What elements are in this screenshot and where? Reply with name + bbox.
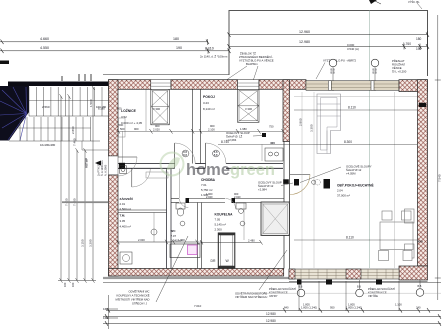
svg-text:2.020: 2.020 bbox=[153, 127, 160, 131]
corridor south wall bbox=[171, 199, 284, 203]
black dash left margin bbox=[0, 61, 9, 65]
leader sloup1 bbox=[253, 135, 263, 138]
svg-text:900: 900 bbox=[155, 124, 160, 128]
svg-text:1.805 (1.240): 1.805 (1.240) bbox=[346, 306, 362, 310]
svg-text:2,500 m²: 2,500 m² bbox=[120, 207, 131, 211]
door bedroom 1 bbox=[174, 143, 176, 168]
grid guideline vertical bbox=[369, 11, 371, 269]
svg-text:3.52: 3.52 bbox=[121, 115, 127, 119]
door wc arc bbox=[180, 199, 189, 208]
svg-text:3 300: 3 300 bbox=[245, 107, 252, 111]
svg-text:B.B: B.B bbox=[373, 71, 377, 75]
leader vysk bbox=[417, 3, 422, 9]
svg-text:2.860: 2.860 bbox=[71, 126, 75, 134]
svg-text:WC: WC bbox=[171, 229, 177, 233]
svg-text:240: 240 bbox=[416, 306, 421, 310]
svg-text:homegreen: homegreen bbox=[186, 161, 275, 179]
svg-text:POKOJ: POKOJ bbox=[203, 95, 215, 99]
living room door bbox=[290, 174, 310, 176]
dimension line top-left A bbox=[0, 41, 208, 43]
bottom glazing band tan right section bbox=[289, 269, 399, 279]
svg-text:1.980: 1.980 bbox=[240, 127, 247, 131]
svg-text:180: 180 bbox=[173, 37, 179, 41]
svg-text:BxAPMm: BxAPMm bbox=[246, 62, 258, 66]
svg-text:4.550: 4.550 bbox=[40, 46, 49, 50]
svg-text:2x 1140, d. Ž *100mm: 2x 1140, d. Ž *100mm bbox=[200, 54, 228, 59]
bathtub bbox=[170, 244, 200, 258]
section bowtie 3 bbox=[324, 179, 331, 189]
chair 3 bbox=[379, 251, 389, 261]
left wall hatched lower bbox=[109, 175, 119, 276]
marker circle wallA 2 bbox=[213, 150, 220, 157]
svg-text:T.M.: T.M. bbox=[120, 214, 126, 218]
threshold circle 2 dashed bbox=[315, 179, 321, 185]
svg-text:500: 500 bbox=[120, 127, 125, 131]
stair walk lines bbox=[29, 100, 109, 102]
svg-text:450: 450 bbox=[418, 240, 423, 244]
dim end ticks top bbox=[1, 32, 430, 53]
shower square bbox=[261, 202, 290, 236]
svg-text:VÝŠK. BL: VÝŠK. BL bbox=[408, 0, 420, 4]
door bedroom 2 bbox=[205, 143, 207, 168]
grid bubble bottom 1 bbox=[300, 280, 302, 289]
bottom wall hatched left section bbox=[109, 269, 284, 277]
wc marker circles bbox=[180, 221, 185, 226]
left wall entrance gap bbox=[109, 156, 119, 175]
door bath arc bbox=[226, 199, 236, 209]
svg-text:7.05: 7.05 bbox=[215, 218, 221, 222]
living interior guide lines bbox=[302, 92, 395, 268]
svg-text:2.000: 2.000 bbox=[138, 238, 145, 242]
dimension line top-left B bbox=[0, 50, 229, 52]
svg-text:+2,084: +2,084 bbox=[258, 188, 267, 192]
tm boiler circle bbox=[151, 229, 157, 235]
leader to odvetrani wc bbox=[156, 236, 188, 302]
svg-text:VSTUP: VSTUP bbox=[85, 158, 89, 168]
wardrobe loznice bbox=[151, 89, 170, 125]
right dim line vertical bbox=[437, 15, 439, 300]
svg-text:950: 950 bbox=[330, 306, 335, 310]
svg-text:ZÁDVEŘÍ: ZÁDVEŘÍ bbox=[120, 196, 133, 201]
grid bubble bottom 2 bbox=[359, 280, 361, 289]
bottom band frame ticks bbox=[301, 270, 393, 279]
stair landing outline bbox=[82, 141, 112, 150]
svg-text:LOŽNICE: LOŽNICE bbox=[121, 108, 137, 113]
svg-text:190: 190 bbox=[176, 46, 182, 50]
svg-text:160: 160 bbox=[71, 282, 75, 287]
entrance door arc bbox=[118, 156, 137, 158]
dim ticks bottom bbox=[105, 308, 441, 326]
divider wall hatched (bedrooms / living) bbox=[283, 80, 290, 142]
grid bubble B1 top bbox=[329, 59, 337, 67]
svg-text:7.480: 7.480 bbox=[73, 138, 77, 146]
bath sink bbox=[236, 203, 246, 209]
north arrow bbox=[369, 0, 377, 4]
stair winder black polygon bbox=[0, 86, 29, 141]
roof overhang outline right section bbox=[229, 11, 428, 77]
bottom band pier 2 hatched bbox=[346, 269, 361, 279]
svg-text:KONSTRUKCE: KONSTRUKCE bbox=[269, 291, 288, 295]
svg-text:3.290: 3.290 bbox=[89, 239, 93, 247]
leader zb1 bbox=[222, 66, 247, 83]
wardrobe pokoj bbox=[238, 89, 260, 122]
right wall black pier bbox=[419, 103, 427, 107]
svg-text:7.07: 7.07 bbox=[171, 234, 177, 238]
section bowtie 2 bbox=[294, 179, 299, 186]
svg-text:KONSTRUKCE: KONSTRUKCE bbox=[368, 291, 387, 295]
fixture pokoj south rect with circles bbox=[265, 148, 283, 161]
divider wall thin lower bbox=[283, 142, 285, 269]
top wall hatched segment 3 bbox=[259, 80, 306, 90]
bottom band black squares bbox=[297, 280, 302, 285]
svg-text:4,400 m²: 4,400 m² bbox=[120, 225, 131, 229]
bottom band pier 1 hatched bbox=[289, 269, 295, 279]
svg-text:8.110: 8.110 bbox=[346, 236, 354, 240]
radiator loznice left wall bbox=[119, 118, 126, 137]
svg-text:750: 750 bbox=[269, 125, 274, 129]
grid bubble bottom 3 bbox=[419, 280, 421, 288]
bottom dim line D2 bbox=[103, 316, 441, 318]
svg-text:3.05: 3.05 bbox=[120, 219, 126, 223]
svg-text:840: 840 bbox=[284, 306, 289, 310]
svg-text:12.980: 12.980 bbox=[266, 319, 276, 323]
svg-text:8,140 m²: 8,140 m² bbox=[203, 107, 215, 111]
watermark logo leaf bbox=[161, 153, 275, 180]
svg-text:180: 180 bbox=[416, 37, 422, 41]
svg-text:900: 900 bbox=[134, 127, 139, 131]
svg-text:5,750 m²: 5,750 m² bbox=[201, 188, 212, 192]
wall A bedrooms south bbox=[118, 164, 283, 169]
living dim line y144 bbox=[218, 143, 417, 145]
bottom-right corner hatched block bbox=[399, 266, 428, 280]
wc toilet bbox=[176, 203, 185, 209]
svg-text:7.540: 7.540 bbox=[438, 174, 442, 182]
svg-text:4.660: 4.660 bbox=[40, 37, 49, 41]
right wall hatched bbox=[418, 80, 428, 266]
svg-text:VATRY: VATRY bbox=[269, 294, 278, 298]
section bowtie 1 bbox=[283, 179, 289, 184]
living faint line y96.5 bbox=[294, 96, 417, 98]
svg-text:37,000 m²: 37,000 m² bbox=[337, 194, 350, 198]
corridor cabinet bbox=[146, 172, 168, 178]
top glazing mullion 2 bbox=[371, 81, 374, 91]
svg-text:400: 400 bbox=[270, 141, 275, 145]
svg-text:160: 160 bbox=[63, 282, 67, 287]
top wall hatched corner right bbox=[399, 80, 428, 92]
chair 2 bbox=[402, 211, 412, 220]
note odvetrani wc bbox=[116, 289, 150, 306]
svg-text:12.980: 12.980 bbox=[266, 312, 276, 316]
svg-text:12.960: 12.960 bbox=[299, 30, 310, 34]
svg-text:CHODBA: CHODBA bbox=[201, 178, 216, 182]
svg-text:+=2,084: +=2,084 bbox=[226, 138, 237, 142]
top wall hatched segment 2 bbox=[171, 80, 238, 90]
svg-text:3.300: 3.300 bbox=[310, 124, 314, 132]
top wall window gap 1 bbox=[151, 80, 171, 90]
leader zb2 bbox=[252, 66, 258, 84]
svg-text:1.805 (1.240): 1.805 (1.240) bbox=[301, 306, 317, 310]
svg-text:OBÝ.POKOJ+KUCHYNĚ: OBÝ.POKOJ+KUCHYNĚ bbox=[337, 183, 374, 188]
svg-text:1.760: 1.760 bbox=[403, 42, 411, 46]
svg-text:3.23: 3.23 bbox=[203, 101, 209, 105]
svg-text:0,000 m² + 4,05: 0,000 m² + 4,05 bbox=[121, 121, 142, 125]
top glazing mullion 1 bbox=[328, 81, 331, 91]
interior extension lines bbox=[123, 90, 263, 243]
left dim column lines bbox=[58, 85, 96, 283]
roof overhang line left section bbox=[103, 74, 229, 76]
dining table bbox=[380, 222, 413, 250]
bottom dim line D3 bbox=[103, 323, 441, 325]
svg-text:1.900: 1.900 bbox=[178, 238, 185, 242]
dimension line top-right C bbox=[229, 34, 428, 36]
sofa group living bbox=[317, 94, 341, 154]
left wall hatched upper bbox=[109, 80, 119, 156]
svg-text:8.300: 8.300 bbox=[344, 140, 352, 144]
svg-text:8.110: 8.110 bbox=[205, 46, 214, 50]
svg-text:8.180: 8.180 bbox=[98, 107, 105, 111]
svg-text:2x PTH 23,8: 2x PTH 23,8 bbox=[97, 161, 101, 176]
kitchen unit 1 right wall bbox=[405, 209, 415, 223]
bottom dim line D1 segments bbox=[106, 309, 441, 311]
svg-text:B.B: B.B bbox=[418, 285, 422, 288]
svg-text:7.01: 7.01 bbox=[201, 183, 207, 187]
top wall hatched segment 1 bbox=[109, 80, 151, 90]
interior dim row y242 bbox=[118, 241, 197, 243]
svg-text:3 300: 3 300 bbox=[153, 107, 160, 111]
svg-text:500.: 500. bbox=[119, 123, 124, 127]
leader vyztuz bbox=[316, 63, 325, 80]
corridor west wall bbox=[166, 168, 168, 268]
svg-text:2.04: 2.04 bbox=[337, 189, 343, 193]
svg-text:200: 200 bbox=[117, 107, 122, 111]
wall A black block bbox=[119, 163, 125, 169]
svg-text:2.480: 2.480 bbox=[248, 239, 255, 243]
svg-text:1.100: 1.100 bbox=[395, 302, 402, 306]
svg-text:1.500: 1.500 bbox=[89, 99, 93, 107]
interior wall bedrooms partition bbox=[192, 89, 194, 163]
stair upper flight treads bbox=[29, 87, 109, 116]
svg-text:B.B: B.B bbox=[183, 154, 187, 157]
bottom band lower line bbox=[289, 281, 428, 283]
grid bubble B2 top bbox=[371, 59, 379, 67]
threshold circle 1 bbox=[312, 180, 316, 184]
grid bubble connector line bbox=[250, 292, 441, 294]
svg-text:+4,05M: +4,05M bbox=[346, 172, 356, 176]
chair 4 bbox=[403, 251, 412, 261]
kitchen unit 2 right wall bbox=[405, 244, 415, 258]
living dim line y240 bbox=[294, 239, 417, 241]
svg-text:B.B: B.B bbox=[331, 71, 335, 75]
svg-text:2.020: 2.020 bbox=[234, 195, 241, 199]
svg-text:2.860: 2.860 bbox=[299, 118, 303, 126]
leader sloup2 bbox=[281, 183, 293, 186]
ticks above stair bar bbox=[78, 74, 80, 81]
stair lower flight treads bbox=[9, 117, 100, 141]
gray path line left bbox=[62, 201, 108, 203]
svg-text:8.110: 8.110 bbox=[348, 106, 356, 110]
svg-text:7.010: 7.010 bbox=[194, 304, 202, 308]
dimension line top-right D bbox=[229, 46, 428, 48]
svg-text:DR: DR bbox=[211, 259, 216, 263]
svg-text:Š/ L +0,200: Š/ L +0,200 bbox=[392, 69, 407, 74]
tm fixture rect bbox=[120, 252, 132, 264]
bottom footing double line bbox=[103, 276, 290, 278]
top wall window gap 2 bbox=[238, 80, 260, 90]
svg-text:12.980: 12.980 bbox=[299, 40, 310, 44]
washer dryer closet bbox=[218, 233, 235, 268]
svg-text:2.020: 2.020 bbox=[206, 195, 213, 199]
terrace edge long line bbox=[103, 282, 441, 284]
zadveri south wall bbox=[118, 209, 167, 211]
svg-text:2.560: 2.560 bbox=[42, 105, 50, 109]
svg-text:2.100: 2.100 bbox=[208, 127, 215, 131]
entrance threshold symbol bbox=[120, 166, 127, 174]
svg-text:2.300: 2.300 bbox=[215, 228, 223, 232]
top glazing band tan bbox=[306, 81, 399, 91]
wc east wall bbox=[197, 203, 199, 269]
svg-text:900: 900 bbox=[210, 124, 215, 128]
door jamb blocks bbox=[186, 198, 190, 203]
stair winder blue radials bbox=[0, 87, 27, 141]
bottom dim extension verticals bbox=[299, 279, 399, 311]
svg-text:B.B: B.B bbox=[214, 154, 218, 157]
leader sloupy living bbox=[300, 167, 341, 183]
magenta highlight rect bbox=[188, 245, 198, 255]
door zadveri arc bbox=[131, 168, 133, 187]
svg-text:16x180x280: 16x180x280 bbox=[40, 143, 56, 147]
svg-text:3.150: 3.150 bbox=[81, 239, 85, 247]
svg-text:VÝZTUŽ BLO.PU - ABR72: VÝZTUŽ BLO.PU - ABR72 bbox=[323, 58, 357, 63]
svg-text:N. A 2000: N. A 2000 bbox=[104, 164, 108, 176]
interior dim row y128 bbox=[118, 130, 283, 132]
svg-text:5,145 m²: 5,145 m² bbox=[215, 223, 226, 227]
stair top bar black bbox=[8, 82, 109, 87]
svg-text:2.01: 2.01 bbox=[120, 202, 126, 206]
svg-text:3.540 (A): 3.540 (A) bbox=[347, 47, 359, 51]
marker circle wallA 1 bbox=[182, 150, 189, 157]
leader to preklad bbox=[259, 250, 287, 290]
svg-text:B.B: B.B bbox=[357, 286, 361, 289]
svg-text:KOUPELNA: KOUPELNA bbox=[215, 213, 234, 217]
chair 1 bbox=[382, 211, 392, 220]
living dim line y110 bbox=[294, 109, 417, 111]
